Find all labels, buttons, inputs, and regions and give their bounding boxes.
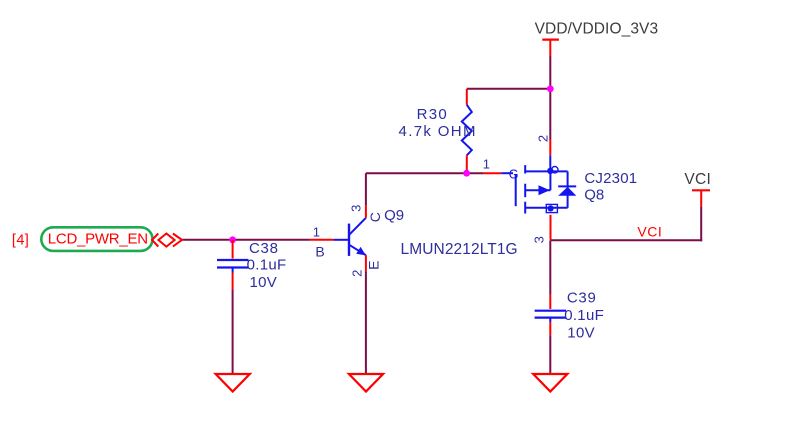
wire base net	[182, 239, 309, 241]
wire VCI vertical riser	[700, 206, 702, 241]
junction gate node	[463, 170, 470, 177]
svg-text:R30: R30	[417, 106, 448, 123]
wire VCI horizontal	[551, 239, 703, 241]
wire drain down to C39	[549, 240, 551, 294]
transistor Q9	[310, 205, 518, 277]
ground (Q9 emitter)	[349, 374, 383, 392]
svg-text:0.1uF: 0.1uF	[247, 257, 287, 274]
resistor R30	[399, 89, 477, 173]
svg-text:B: B	[315, 244, 324, 260]
wire VDD vertical	[549, 56, 551, 140]
wire VDD horizontal to resistor	[467, 88, 551, 90]
svg-text:VCI: VCI	[684, 171, 711, 188]
net stub LCD_PWR_EN	[41, 227, 152, 251]
svg-text:1: 1	[483, 157, 490, 172]
svg-text:Q9: Q9	[384, 207, 404, 224]
svg-text:10V: 10V	[567, 324, 595, 341]
svg-text:C39: C39	[567, 290, 597, 307]
ground (C39)	[533, 374, 567, 392]
wire C39 to ground	[549, 335, 551, 374]
capacitor C38	[217, 240, 286, 291]
svg-text:G: G	[509, 168, 519, 182]
svg-text:3: 3	[348, 205, 363, 212]
wire C38 to ground	[232, 290, 234, 374]
capacitor C39	[535, 290, 604, 342]
svg-text:[4]: [4]	[12, 233, 29, 249]
off-page connector	[152, 234, 182, 247]
ground (C38)	[216, 374, 250, 392]
junction base node at C38	[229, 236, 236, 243]
svg-text:0.1uF: 0.1uF	[564, 307, 604, 324]
svg-text:2: 2	[536, 135, 551, 142]
svg-text:LMUN2212LT1G: LMUN2212LT1G	[401, 241, 518, 258]
svg-text:CJ2301: CJ2301	[584, 170, 637, 187]
svg-text:1: 1	[313, 224, 320, 239]
svg-text:LCD_PWR_EN: LCD_PWR_EN	[48, 230, 148, 247]
svg-text:VCI: VCI	[637, 224, 662, 240]
svg-text:E: E	[366, 261, 382, 270]
power symbol VCI	[684, 171, 711, 206]
svg-text:VDD/VDDIO_3V3: VDD/VDDIO_3V3	[535, 21, 659, 38]
svg-text:3: 3	[531, 236, 546, 243]
svg-text:4.7k OHM: 4.7k OHM	[399, 123, 477, 140]
wire gate net horizontal	[366, 172, 484, 174]
mosfet Q8	[483, 135, 638, 244]
wire emitter to ground	[365, 271, 367, 374]
svg-text:C38: C38	[249, 240, 279, 257]
svg-text:C: C	[367, 212, 383, 222]
svg-text:10V: 10V	[250, 274, 278, 291]
junction VDD node	[547, 85, 554, 92]
svg-text:2: 2	[350, 270, 365, 277]
wire collector to gate vertical	[365, 173, 367, 205]
power symbol VDD/VDDIO_3V3	[535, 21, 659, 56]
svg-text:Q8: Q8	[584, 187, 604, 204]
